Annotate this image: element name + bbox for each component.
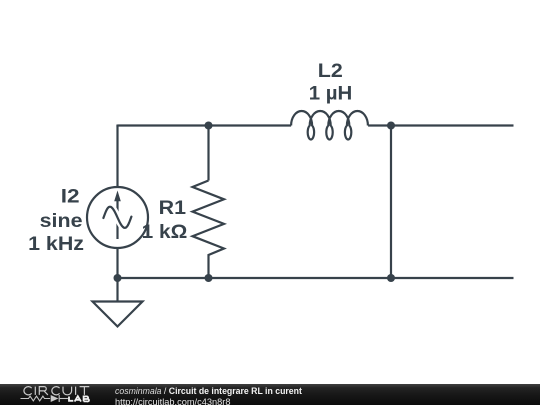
svg-text:1 kHz: 1 kHz [28, 234, 84, 255]
svg-text:1 kΩ: 1 kΩ [142, 222, 188, 243]
svg-text:I2: I2 [61, 186, 80, 207]
svg-text:sine: sine [40, 211, 83, 232]
svg-text:L2: L2 [318, 61, 343, 82]
svg-text:1 µH: 1 µH [309, 83, 353, 104]
svg-text:R1: R1 [159, 198, 186, 219]
